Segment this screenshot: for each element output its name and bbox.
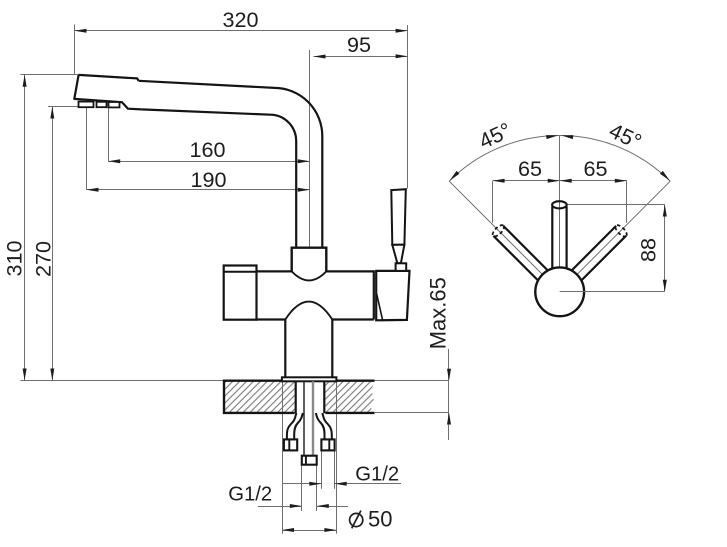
dimension 88 line — [664, 205, 666, 292]
svg-text:65: 65 — [518, 156, 542, 181]
left hose inner wall — [294, 413, 303, 439]
top view left tube lower wall — [493, 236, 538, 281]
dimension 65 arrow center left — [548, 179, 560, 183]
top view center spout tube right wall — [565, 207, 567, 270]
wire extension line 190 left — [86, 108, 88, 191]
dimension 65 arrow far right — [615, 179, 627, 183]
wire extension line countertop bottom — [375, 412, 449, 414]
wire extension line flange right (d50) — [336, 381, 338, 534]
top view axis line — [559, 135, 561, 291]
dimension 320 arrow right — [396, 29, 408, 33]
svg-text:G1/2: G1/2 — [228, 484, 272, 506]
top view left tube cap ellipse — [491, 223, 506, 238]
wire extension line 310 top — [21, 74, 79, 76]
wire extension line flange left (d50) — [282, 381, 284, 534]
svg-text:50: 50 — [368, 507, 392, 532]
dimension 270 arrow bottom — [50, 369, 54, 381]
left hose outer wall — [287, 413, 296, 439]
faucet aerator tooth 1 — [79, 102, 94, 108]
dimension G1/2 left arrow 2 — [317, 504, 329, 508]
faucet aerator tooth 2 — [97, 102, 107, 107]
top view right tube cap ellipse — [614, 223, 629, 238]
faucet spout head outline — [74, 75, 141, 110]
dimension G1/2 right line left segment — [282, 483, 321, 485]
dimension 190 arrow right — [298, 188, 310, 192]
faucet right handle socket — [376, 271, 409, 320]
top view center spout tube left wall — [551, 207, 553, 270]
wire extension line 65 right — [626, 181, 628, 223]
faucet aerator tooth 3 — [109, 102, 120, 107]
svg-text:65: 65 — [583, 156, 607, 181]
faucet left handle cap line — [224, 271, 257, 273]
svg-text:270: 270 — [31, 241, 56, 277]
dimension 310 arrow top — [23, 75, 27, 87]
faucet shank left side — [295, 381, 297, 413]
dimension 270 line — [52, 107, 54, 381]
top view right tube upper wall — [572, 226, 617, 271]
dimension Max.65 line — [448, 349, 450, 440]
dimension G1/2 right arrow 2 — [335, 482, 347, 486]
faucet body bottom line left — [255, 318, 285, 320]
dimension 190 arrow left — [87, 188, 99, 192]
svg-text:88: 88 — [636, 238, 661, 262]
top view left tube upper wall — [503, 226, 548, 271]
dimension G1/2 left arrow — [290, 504, 302, 508]
faucet lever boss — [396, 263, 407, 271]
top view body circle — [535, 267, 584, 316]
dimension 65 line — [493, 180, 627, 182]
svg-text:160: 160 — [189, 137, 225, 162]
wire extension line 320-95 right — [407, 25, 409, 189]
countertop right block bottom line — [325, 412, 374, 414]
dimension Max.65 arrow bottom — [447, 413, 451, 425]
svg-text:Max.65: Max.65 — [425, 277, 450, 349]
dimension 320 line — [75, 30, 408, 32]
faucet leg dome arc — [285, 302, 332, 320]
left hose connector facet line — [288, 439, 290, 450]
svg-text:310: 310 — [1, 240, 26, 276]
dimension 160 line — [108, 161, 310, 163]
dimension d50 diameter symbol — [350, 511, 363, 529]
faucet leg right side — [331, 320, 333, 378]
dimension G1/2 left line right segment — [317, 506, 348, 508]
dimension 310 arrow bottom — [23, 369, 27, 381]
faucet body bar fill — [255, 271, 374, 319]
svg-text:320: 320 — [222, 7, 258, 32]
wire extension line 320 left — [74, 25, 76, 75]
svg-text:190: 190 — [190, 167, 226, 192]
dimension 95 line — [314, 56, 408, 58]
dimension 190 line — [87, 189, 310, 191]
faucet right handle socket shade line — [377, 294, 383, 321]
svg-text:G1/2: G1/2 — [355, 463, 399, 485]
dimension 160 arrow right — [298, 159, 310, 163]
right hose connector facet line — [328, 439, 330, 450]
dimension 160 arrow left — [108, 159, 120, 163]
right hose outer wall — [322, 413, 331, 439]
countertop left block hatch — [224, 381, 295, 413]
center pipe connector facet line — [305, 456, 307, 465]
faucet shank right side — [323, 381, 325, 413]
top view right tube lower wall — [581, 236, 626, 281]
top view swing ray right — [577, 181, 670, 274]
dimension 88 top link line — [568, 204, 665, 206]
top view arc arrow right end — [660, 171, 670, 181]
faucet body top line right — [326, 270, 374, 272]
right hose inner wall — [316, 413, 325, 439]
dimension Max.65 arrow top — [447, 369, 451, 381]
top view swing ray left — [449, 181, 542, 274]
dimension 270 arrow top — [50, 107, 54, 119]
dimension 88 arrow bottom — [663, 280, 667, 292]
top view arc arrow center left — [546, 135, 558, 139]
faucet lever cone — [392, 245, 404, 264]
center pipe connector — [302, 456, 317, 465]
wire extension line right connector right — [334, 451, 336, 489]
center supply pipe right wall — [312, 381, 314, 455]
dimension G1/2 right arrow — [309, 482, 321, 486]
faucet collar — [292, 248, 327, 273]
top view center spout cap ellipse — [552, 201, 567, 208]
wire extension line right connector left — [321, 451, 323, 489]
faucet spout tube — [139, 81, 323, 248]
dimension G1/2 right line right segment — [335, 483, 401, 485]
wire extension line 65 left — [492, 181, 494, 223]
dimension 95 arrow left — [314, 55, 326, 59]
top view arc arrow left end — [450, 171, 460, 181]
right hose connector — [321, 439, 334, 450]
dimension d50 arrow right — [324, 528, 336, 532]
top view arc arrow center right — [561, 135, 573, 139]
wire extension line center connector right — [316, 465, 318, 511]
dimension 88 arrow top — [663, 205, 667, 217]
wire extension line 160 left — [108, 108, 110, 162]
faucet body top line left — [257, 270, 292, 272]
faucet body right edge — [373, 270, 375, 319]
faucet base flange — [282, 377, 337, 381]
countertop right block hatch — [325, 381, 374, 413]
faucet lever rod — [391, 189, 406, 245]
dimension 65 arrow far left — [493, 179, 505, 183]
countertop right block top line — [325, 380, 374, 382]
dimension d50 line — [282, 530, 336, 532]
countertop left block border — [224, 381, 295, 413]
wire extension line countertop top — [21, 380, 449, 382]
faucet collar-body fillet arc — [292, 271, 327, 280]
dimension 65 arrow center right — [560, 179, 572, 183]
faucet leg left side — [284, 320, 286, 378]
wire extension line center connector left — [301, 465, 303, 511]
svg-text:95: 95 — [347, 32, 371, 57]
dimension 95 arrow right — [396, 54, 408, 58]
dimension 310 line — [24, 75, 26, 381]
top view swing arc — [449, 135, 670, 181]
faucet body bottom line right — [332, 318, 374, 320]
left hose connector — [284, 439, 297, 450]
dimension d50 arrow left — [282, 528, 294, 532]
dimension 88 bottom link line — [560, 291, 665, 293]
dimension 320 arrow left — [75, 29, 87, 33]
wire extension line 270 top — [48, 106, 81, 108]
wire extension line 95 left / spout pipe axis — [309, 50, 311, 250]
center supply pipe left wall — [303, 381, 305, 455]
dimension G1/2 left line left segment — [258, 506, 302, 508]
faucet left handle — [224, 266, 257, 320]
